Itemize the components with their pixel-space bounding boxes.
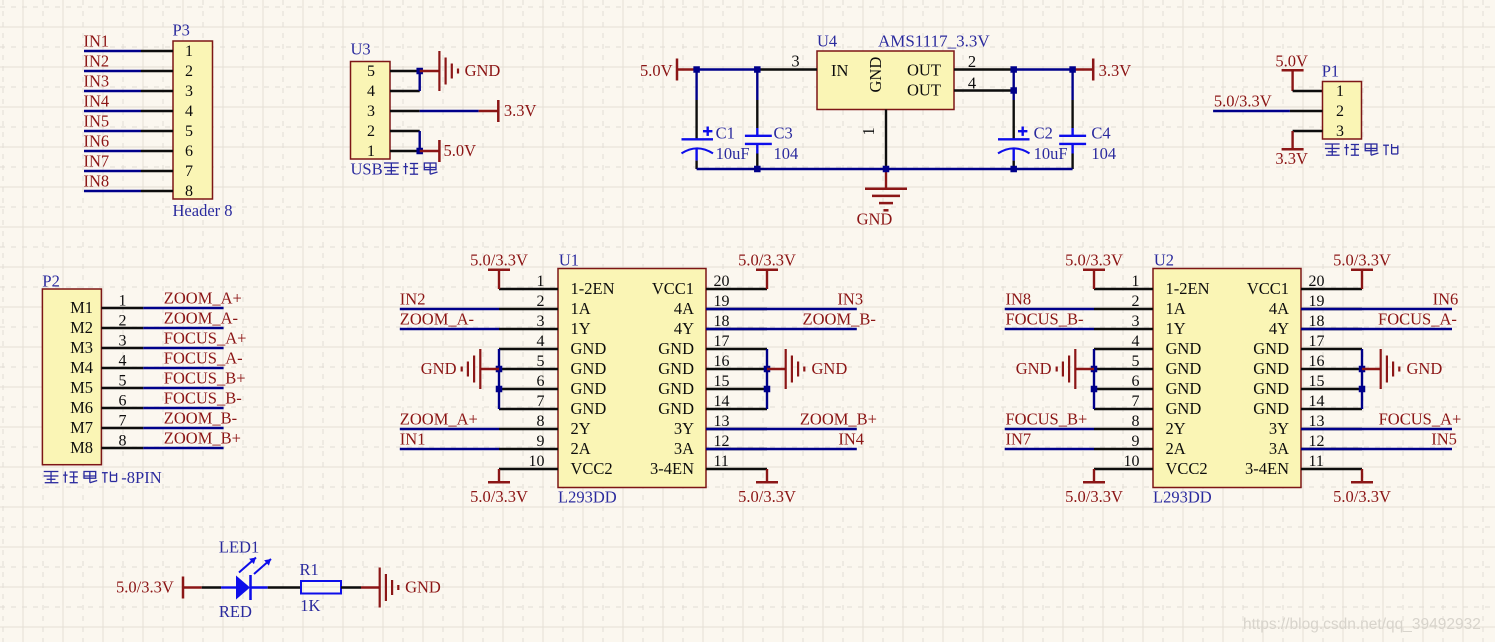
svg-text:GND: GND (1016, 359, 1052, 378)
svg-text:3: 3 (1336, 123, 1344, 140)
svg-text:5.0/3.3V: 5.0/3.3V (738, 487, 796, 506)
svg-text:19: 19 (1309, 293, 1325, 310)
svg-text:11: 11 (1309, 453, 1324, 470)
svg-text:1: 1 (537, 273, 545, 290)
svg-text:ZOOM_B-: ZOOM_B- (803, 309, 876, 328)
svg-text:GND: GND (658, 399, 694, 418)
svg-text:1A: 1A (1166, 299, 1186, 318)
svg-text:IN1: IN1 (400, 429, 426, 448)
svg-text:IN2: IN2 (400, 289, 426, 308)
svg-text:Header 8: Header 8 (173, 201, 233, 220)
svg-text:5.0V: 5.0V (1275, 52, 1308, 71)
svg-text:GND: GND (1407, 359, 1443, 378)
svg-text:GND: GND (866, 57, 885, 93)
svg-text:2: 2 (968, 52, 976, 71)
svg-text:GND: GND (1166, 339, 1202, 358)
svg-text:VCC2: VCC2 (571, 459, 613, 478)
svg-text:IN5: IN5 (84, 111, 110, 130)
svg-text:20: 20 (714, 273, 730, 290)
svg-text:4Y: 4Y (674, 319, 694, 338)
svg-text:P1: P1 (1322, 62, 1339, 81)
svg-text:M7: M7 (70, 418, 93, 437)
svg-text:L293DD: L293DD (558, 488, 617, 507)
svg-text:U2: U2 (1154, 251, 1174, 270)
svg-text:GND: GND (658, 339, 694, 358)
svg-text:IN3: IN3 (84, 71, 110, 90)
svg-text:VCC2: VCC2 (1166, 459, 1208, 478)
svg-text:3Y: 3Y (1269, 419, 1289, 438)
svg-text:GND: GND (1253, 339, 1289, 358)
svg-text:IN6: IN6 (1433, 289, 1459, 308)
svg-text:LED1: LED1 (219, 538, 259, 557)
svg-text:14: 14 (714, 393, 730, 410)
svg-text:3.3V: 3.3V (1275, 149, 1308, 168)
svg-text:GND: GND (421, 359, 457, 378)
svg-text:16: 16 (714, 353, 730, 370)
svg-text:OUT: OUT (907, 81, 941, 100)
svg-text:4: 4 (185, 103, 193, 120)
svg-text:RED: RED (219, 602, 252, 621)
svg-text:2: 2 (1132, 293, 1140, 310)
svg-text:P2: P2 (42, 272, 59, 291)
svg-text:3.3V: 3.3V (504, 101, 537, 120)
svg-text:ZOOM_A+: ZOOM_A+ (164, 288, 242, 307)
svg-text:4: 4 (1132, 333, 1140, 350)
svg-text:8: 8 (1132, 413, 1140, 430)
svg-text:2A: 2A (1166, 439, 1186, 458)
svg-text:15: 15 (714, 373, 730, 390)
svg-text:1K: 1K (300, 596, 320, 615)
svg-text:13: 13 (1309, 413, 1325, 430)
svg-text:C4: C4 (1091, 124, 1110, 143)
svg-text:5: 5 (119, 373, 127, 390)
svg-text:3-4EN: 3-4EN (1245, 459, 1289, 478)
svg-text:FOCUS_A-: FOCUS_A- (164, 348, 243, 367)
svg-text:M5: M5 (70, 378, 93, 397)
svg-text:1-2EN: 1-2EN (571, 279, 615, 298)
svg-text:4A: 4A (1269, 299, 1289, 318)
svg-text:M4: M4 (70, 358, 93, 377)
svg-text:1: 1 (859, 127, 878, 135)
svg-text:1A: 1A (571, 299, 591, 318)
svg-text:20: 20 (1309, 273, 1325, 290)
svg-text:ZOOM_B+: ZOOM_B+ (164, 428, 241, 447)
svg-text:5.0/3.3V: 5.0/3.3V (116, 578, 174, 597)
svg-text:4: 4 (367, 83, 375, 100)
svg-text:FOCUS_A+: FOCUS_A+ (164, 328, 247, 347)
svg-text:5.0/3.3V: 5.0/3.3V (738, 250, 796, 269)
svg-text:FOCUS_A-: FOCUS_A- (1378, 309, 1457, 328)
svg-text:5: 5 (537, 353, 545, 370)
svg-text:GND: GND (1166, 359, 1202, 378)
svg-text:9: 9 (1132, 433, 1140, 450)
svg-text:USB: USB (351, 160, 383, 179)
svg-text:6: 6 (1132, 373, 1140, 390)
svg-text:12: 12 (714, 433, 730, 450)
svg-text:3: 3 (119, 333, 127, 350)
svg-text:GND: GND (1166, 399, 1202, 418)
svg-text:GND: GND (571, 399, 607, 418)
svg-text:5.0/3.3V: 5.0/3.3V (1214, 91, 1272, 110)
svg-text:ZOOM_A-: ZOOM_A- (164, 308, 238, 327)
svg-text:M2: M2 (70, 318, 93, 337)
svg-text:AMS1117_3.3V: AMS1117_3.3V (878, 32, 990, 51)
svg-text:6: 6 (185, 143, 193, 160)
svg-text:ZOOM_A-: ZOOM_A- (400, 309, 474, 328)
svg-text:GND: GND (1253, 359, 1289, 378)
svg-text:GND: GND (465, 61, 501, 80)
svg-text:10uF: 10uF (1034, 144, 1068, 163)
svg-text:R1: R1 (300, 560, 319, 579)
svg-text:2A: 2A (571, 439, 591, 458)
svg-text:U3: U3 (351, 40, 371, 59)
svg-text:IN7: IN7 (1006, 429, 1032, 448)
svg-text:10uF: 10uF (716, 144, 750, 163)
svg-text:IN4: IN4 (84, 91, 110, 110)
svg-text:17: 17 (714, 333, 730, 350)
svg-text:1Y: 1Y (571, 319, 591, 338)
svg-text:ZOOM_B+: ZOOM_B+ (800, 409, 877, 428)
svg-text:3Y: 3Y (674, 419, 694, 438)
svg-text:IN8: IN8 (84, 171, 110, 190)
svg-text:-8PIN: -8PIN (121, 468, 161, 487)
svg-text:GND: GND (658, 359, 694, 378)
svg-text:16: 16 (1309, 353, 1325, 370)
svg-text:5: 5 (185, 123, 193, 140)
svg-text:8: 8 (185, 183, 193, 200)
svg-text:1: 1 (367, 143, 375, 160)
svg-text:IN2: IN2 (84, 51, 110, 70)
svg-text:IN: IN (831, 61, 848, 80)
svg-text:5.0V: 5.0V (444, 141, 477, 160)
svg-text:FOCUS_B-: FOCUS_B- (164, 388, 242, 407)
svg-text:2Y: 2Y (571, 419, 591, 438)
svg-text:ZOOM_A+: ZOOM_A+ (400, 409, 478, 428)
svg-text:GND: GND (571, 379, 607, 398)
svg-text:10: 10 (529, 453, 545, 470)
svg-text:11: 11 (714, 453, 729, 470)
svg-text:18: 18 (714, 313, 730, 330)
svg-text:3: 3 (185, 83, 193, 100)
svg-text:GND: GND (571, 339, 607, 358)
svg-text:GND: GND (1253, 379, 1289, 398)
svg-text:VCC1: VCC1 (1247, 279, 1289, 298)
svg-text:C2: C2 (1034, 124, 1053, 143)
svg-text:3: 3 (537, 313, 545, 330)
svg-text:7: 7 (119, 413, 127, 430)
svg-text:9: 9 (537, 433, 545, 450)
svg-text:8: 8 (537, 413, 545, 430)
svg-text:IN3: IN3 (837, 289, 863, 308)
svg-text:13: 13 (714, 413, 730, 430)
svg-text:IN1: IN1 (84, 31, 110, 50)
svg-text:3: 3 (367, 103, 375, 120)
svg-text:7: 7 (537, 393, 545, 410)
svg-text:1: 1 (119, 293, 127, 310)
svg-text:5.0/3.3V: 5.0/3.3V (1333, 250, 1391, 269)
svg-text:M1: M1 (70, 298, 93, 317)
svg-text:4: 4 (968, 74, 976, 93)
svg-text:GND: GND (405, 578, 441, 597)
svg-text:GND: GND (1253, 399, 1289, 418)
svg-text:8: 8 (119, 433, 127, 450)
svg-text:GND: GND (857, 210, 893, 229)
svg-text:GND: GND (1166, 379, 1202, 398)
svg-text:3A: 3A (674, 439, 694, 458)
svg-text:19: 19 (714, 293, 730, 310)
svg-text:M8: M8 (70, 438, 93, 457)
svg-text:GND: GND (571, 359, 607, 378)
svg-text:5: 5 (1132, 353, 1140, 370)
svg-text:5.0/3.3V: 5.0/3.3V (1333, 487, 1391, 506)
svg-text:2Y: 2Y (1166, 419, 1186, 438)
svg-text:1Y: 1Y (1166, 319, 1186, 338)
svg-text:4: 4 (119, 353, 127, 370)
svg-text:7: 7 (1132, 393, 1140, 410)
svg-text:4: 4 (537, 333, 545, 350)
svg-text:1: 1 (1336, 83, 1344, 100)
svg-text:IN8: IN8 (1006, 289, 1032, 308)
svg-text:12: 12 (1309, 433, 1325, 450)
svg-text:OUT: OUT (907, 61, 941, 80)
svg-text:C1: C1 (716, 124, 735, 143)
svg-text:3.3V: 3.3V (1099, 61, 1132, 80)
svg-text:M3: M3 (70, 338, 93, 357)
svg-text:M6: M6 (70, 398, 93, 417)
svg-text:2: 2 (119, 313, 127, 330)
svg-text:7: 7 (185, 163, 193, 180)
svg-text:4Y: 4Y (1269, 319, 1289, 338)
svg-text:104: 104 (774, 144, 799, 163)
svg-text:FOCUS_B-: FOCUS_B- (1006, 309, 1084, 328)
svg-text:2: 2 (185, 63, 193, 80)
svg-text:3-4EN: 3-4EN (650, 459, 694, 478)
svg-text:FOCUS_B+: FOCUS_B+ (1006, 409, 1088, 428)
svg-text:6: 6 (537, 373, 545, 390)
svg-text:5.0/3.3V: 5.0/3.3V (470, 250, 528, 269)
svg-text:5.0V: 5.0V (640, 61, 673, 80)
svg-text:GND: GND (812, 359, 848, 378)
svg-text:2: 2 (1336, 103, 1344, 120)
svg-text:18: 18 (1309, 313, 1325, 330)
svg-text:5.0/3.3V: 5.0/3.3V (470, 487, 528, 506)
svg-text:U4: U4 (817, 32, 837, 51)
svg-text:17: 17 (1309, 333, 1325, 350)
svg-text:1: 1 (1132, 273, 1140, 290)
svg-text:ZOOM_B-: ZOOM_B- (164, 408, 237, 427)
svg-text:https://blog.csdn.net/qq_39492: https://blog.csdn.net/qq_39492932 (1243, 616, 1481, 633)
svg-text:5.0/3.3V: 5.0/3.3V (1065, 487, 1123, 506)
svg-text:IN6: IN6 (84, 131, 110, 150)
svg-text:FOCUS_B+: FOCUS_B+ (164, 368, 246, 387)
svg-text:3: 3 (1132, 313, 1140, 330)
svg-text:104: 104 (1091, 144, 1116, 163)
svg-text:VCC1: VCC1 (652, 279, 694, 298)
svg-text:4A: 4A (674, 299, 694, 318)
svg-text:1-2EN: 1-2EN (1166, 279, 1210, 298)
svg-text:15: 15 (1309, 373, 1325, 390)
svg-text:10: 10 (1124, 453, 1140, 470)
svg-text:IN5: IN5 (1431, 429, 1457, 448)
svg-text:2: 2 (367, 123, 375, 140)
svg-text:5: 5 (367, 63, 375, 80)
svg-text:5.0/3.3V: 5.0/3.3V (1065, 250, 1123, 269)
svg-text:2: 2 (537, 293, 545, 310)
svg-text:IN4: IN4 (838, 429, 864, 448)
svg-text:3A: 3A (1269, 439, 1289, 458)
svg-text:GND: GND (658, 379, 694, 398)
svg-text:14: 14 (1309, 393, 1325, 410)
svg-text:C3: C3 (774, 124, 793, 143)
svg-text:3: 3 (791, 52, 799, 71)
svg-text:1: 1 (185, 43, 193, 60)
svg-text:IN7: IN7 (84, 151, 110, 170)
svg-text:FOCUS_A+: FOCUS_A+ (1379, 409, 1462, 428)
svg-text:L293DD: L293DD (1153, 488, 1212, 507)
svg-text:U1: U1 (559, 251, 579, 270)
svg-text:P3: P3 (173, 21, 190, 40)
svg-text:6: 6 (119, 393, 127, 410)
